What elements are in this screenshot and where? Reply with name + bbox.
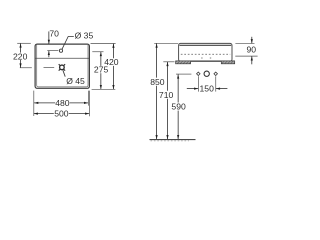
svg-text:Ø 35: Ø 35 (75, 30, 94, 40)
svg-text:500: 500 (54, 109, 69, 119)
svg-text:710: 710 (159, 90, 174, 100)
dimension 850 (150, 43, 178, 139)
bottom extension lines (34, 91, 90, 117)
side view: basin bottom edge (176, 60, 235, 62)
svg-text:590: 590 (171, 102, 186, 112)
dimension 275 (92, 52, 108, 89)
drain outlet circle (204, 71, 209, 76)
top view: ledge line (35, 57, 89, 59)
svg-text:480: 480 (55, 98, 70, 108)
svg-text:850: 850 (150, 77, 165, 87)
top view: basin inner rim line (37, 45, 88, 87)
right mounting bracket (221, 61, 234, 64)
drain centerline (44, 66, 55, 68)
tap hole (59, 49, 62, 52)
dimension 90 (235, 37, 257, 65)
floor line (150, 139, 196, 141)
svg-text:90: 90 (247, 45, 257, 55)
dimension 150 (187, 76, 228, 93)
side view: rim second line (179, 44, 231, 46)
dimension 70 (49, 29, 59, 58)
dimension 710 (159, 62, 175, 139)
dimension 220 (13, 43, 32, 67)
dimension 590 (171, 74, 186, 139)
label Ø35 leader (62, 37, 74, 50)
dimension 480 (34, 98, 88, 108)
svg-text:Ø 45: Ø 45 (66, 76, 85, 86)
fixing holes centerline (176, 73, 191, 75)
side view: basin body (179, 43, 232, 61)
svg-text:220: 220 (13, 51, 28, 61)
label Ø45 leader (63, 70, 65, 76)
tap hole centerline (47, 50, 58, 52)
fixing hole right diamond (214, 72, 218, 76)
left mounting bracket (176, 61, 191, 64)
floor hatching (151, 140, 190, 142)
svg-text:150: 150 (200, 83, 215, 93)
svg-text:70: 70 (49, 29, 59, 39)
side view: hidden rim dashed line (181, 53, 230, 55)
svg-text:275: 275 (94, 65, 109, 75)
top view: basin outer outline (35, 44, 89, 88)
drain hole symbol (59, 64, 65, 70)
side view: hidden drain dashes (201, 57, 202, 59)
dimension 500 (34, 109, 90, 119)
fixing hole left diamond (197, 72, 201, 76)
dimension 420 (91, 44, 119, 90)
